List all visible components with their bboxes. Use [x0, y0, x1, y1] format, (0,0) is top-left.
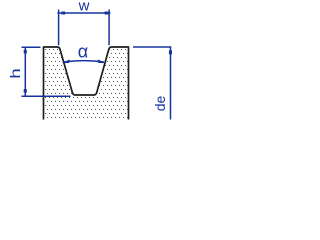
workpiece outline (open at bottom) [44, 47, 129, 120]
dimension h: top square terminator [24, 50, 27, 54]
dimension h: bottom square terminator [24, 89, 27, 93]
svg-text:α: α [78, 42, 88, 62]
dimension de: top extension line [133, 46, 171, 48]
dimension h: dimension line [24, 47, 26, 96]
dimension w: right square terminator [105, 12, 109, 15]
svg-text:de: de [152, 96, 168, 112]
dimension alpha: right arrowhead [98, 59, 106, 63]
dimension alpha: arc line [64, 61, 105, 62]
dimension de: dimension line [170, 47, 172, 120]
dimension w: left extension line [58, 10, 60, 46]
dimension alpha: left arrowhead [62, 59, 70, 63]
svg-text:h: h [8, 68, 23, 78]
dimension h: bottom extension line [22, 95, 71, 97]
dimension de: square terminator [169, 50, 172, 54]
dimension h: top extension line [22, 46, 41, 48]
dimension w: left square terminator [61, 12, 65, 15]
workpiece section fill (stippled material, groove cut out) [44, 47, 129, 118]
dimension w: right extension line [108, 10, 110, 46]
dimension w: dimension line [57, 12, 110, 14]
